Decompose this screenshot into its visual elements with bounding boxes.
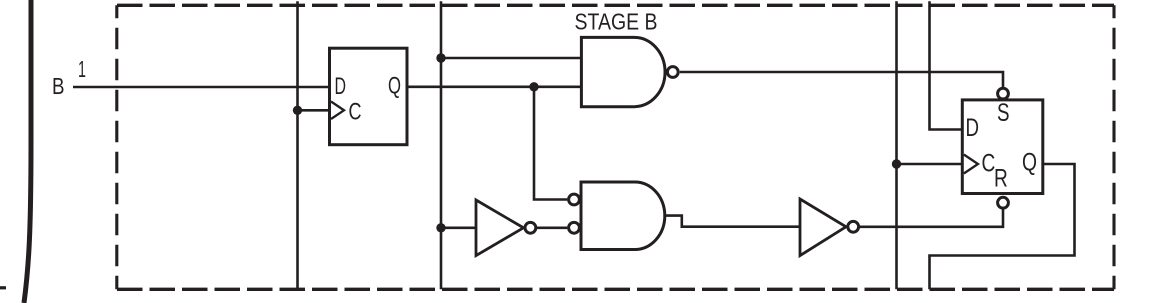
wire inverter U2 to AND lower input [537,227,568,230]
AND gate U4 input bubble lower [569,222,580,233]
wire FF1 Q output to NAND input [407,86,581,89]
dashed stage boundary box [117,5,1114,289]
wire NAND upper input stub [441,57,581,60]
junction dot at FF1 clock tap [293,106,302,115]
inverter U5 output bubble [848,221,859,232]
wire NAND output to FF2 S [680,72,1003,88]
wire clock bus vertical (x=896.5) [895,1,898,289]
wire FF2 Q feedback to bottom border [930,164,1075,289]
junction dot inverter U2 input tap [436,223,445,232]
wire clock bus vertical (x=297.5) [296,1,299,289]
svg-text:R: R [994,165,1008,193]
junction dot on Q line feeding AND gate [529,82,538,91]
junction dot FF2 clock tap [892,159,901,168]
dashed border fragment (adjacent stage, bottom-left) [0,286,6,289]
inverter U2 output bubble [525,222,536,233]
svg-text:Q: Q [1022,149,1037,177]
wire inverter U5 output to FF2 R [860,209,1003,227]
inverter U2 triangle [476,200,524,256]
flip-flop U1 body [330,48,408,145]
svg-text:B: B [52,73,65,99]
svg-text:D: D [966,114,980,142]
flip-flop U6 S input bubble [998,88,1009,99]
wire inverter U2 input stub [441,227,476,230]
svg-text:D: D [335,73,347,100]
flip-flop U6 clock edge triangle [964,155,978,174]
wire feedback bus vertical (x=441) [440,1,443,289]
AND gate U4 body [581,182,665,250]
svg-text:S: S [997,99,1010,127]
wire FF2 C input stub [897,163,963,166]
wire FF1 C input stub [298,109,330,112]
junction dot NAND upper input tap [436,53,445,62]
svg-text:Q: Q [388,73,401,100]
AND gate U4 input bubble upper [569,194,580,205]
wire AND output jog to inverter U5 [664,216,800,227]
NAND gate U3 output bubble [667,67,678,78]
svg-text:1: 1 [78,56,86,82]
flip-flop U6 body [962,100,1043,194]
left page brace curve [24,0,31,303]
wire B input to FF1 D [73,86,330,89]
flip-flop U1 clock edge triangle [331,102,344,120]
wire from Q line down to AND upper input [534,87,567,200]
wire FF2 D input from top (x=929.5) [930,1,963,129]
flip-flop U6 R input bubble [998,197,1009,208]
svg-text:C: C [349,99,362,126]
inverter U5 triangle [800,199,846,256]
svg-text:STAGE B: STAGE B [575,9,658,35]
NAND gate U3 body [581,37,665,106]
